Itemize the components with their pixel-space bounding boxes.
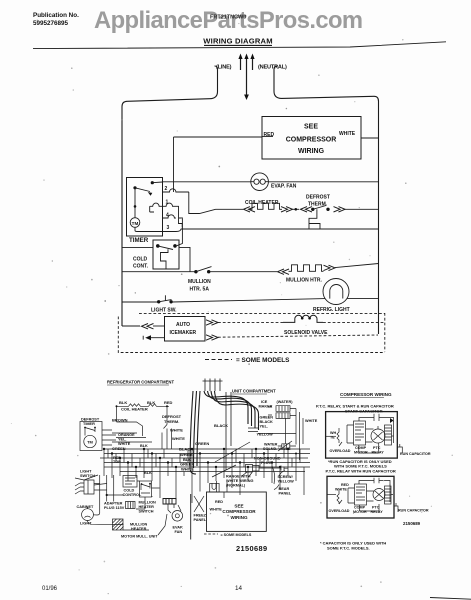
svg-text:WHITE: WHITE <box>339 131 356 137</box>
svg-text:WIRING: WIRING <box>298 148 325 155</box>
svg-text:THERM.: THERM. <box>164 419 179 424</box>
svg-text:YELLOW: YELLOW <box>278 480 295 484</box>
svg-text:MOTOR: MOTOR <box>354 451 368 455</box>
svg-text:TIMER: TIMER <box>129 237 149 244</box>
svg-text:SEE: SEE <box>304 124 318 131</box>
svg-text:WHITE: WHITE <box>335 488 347 492</box>
svg-text:MAKER: MAKER <box>259 405 273 409</box>
svg-text:Publication No.: Publication No. <box>33 12 79 19</box>
svg-text:FAN: FAN <box>175 530 183 534</box>
svg-text:BLK: BLK <box>119 400 127 405</box>
svg-text:WH: WH <box>330 431 336 435</box>
svg-text:RUN CAPACITOR: RUN CAPACITOR <box>398 509 429 513</box>
svg-text:(WATER): (WATER) <box>277 400 294 404</box>
svg-text:SOLENOID VALVE: SOLENOID VALVE <box>284 330 328 336</box>
svg-text:RANGE WITH: RANGE WITH <box>226 475 251 479</box>
svg-text:PTC: PTC <box>373 446 381 450</box>
svg-text:WHITE: WHITE <box>170 428 183 433</box>
svg-text:GREEN: GREEN <box>260 416 274 420</box>
svg-text:CABINET: CABINET <box>77 505 95 509</box>
svg-text:PANEL: PANEL <box>194 518 207 522</box>
svg-text:HTR. 5A: HTR. 5A <box>190 287 210 293</box>
svg-text:WHITE WIRING: WHITE WIRING <box>226 479 253 483</box>
svg-text:01/96: 01/96 <box>42 586 58 592</box>
svg-text:CONTROL: CONTROL <box>123 493 142 497</box>
svg-text:WHITE: WHITE <box>118 442 131 446</box>
svg-text:COIL HEATER: COIL HEATER <box>121 407 148 412</box>
svg-text:MULLION: MULLION <box>139 501 157 505</box>
svg-text:RED: RED <box>341 483 349 487</box>
svg-text:COMPRESSOR WIRING: COMPRESSOR WIRING <box>340 392 392 397</box>
svg-text:FRT21TNCW0: FRT21TNCW0 <box>210 15 246 21</box>
svg-text:UNIT COMPARTMENT: UNIT COMPARTMENT <box>232 389 276 394</box>
svg-text:COLD: COLD <box>133 257 148 263</box>
svg-text:DEFROST: DEFROST <box>81 418 100 422</box>
svg-text:COLD: COLD <box>124 489 135 493</box>
svg-text:MULLION HTR.: MULLION HTR. <box>286 278 322 284</box>
svg-text:SWITCH: SWITCH <box>139 510 154 514</box>
svg-text:HEATER: HEATER <box>139 505 155 509</box>
svg-text:REAR: REAR <box>279 487 290 491</box>
svg-text:= SOME MODELS: = SOME MODELS <box>236 357 290 364</box>
svg-text:3: 3 <box>167 225 170 231</box>
svg-text:EVAP.: EVAP. <box>173 526 184 530</box>
svg-text:REFRIG. LIGHT: REFRIG. LIGHT <box>313 307 350 313</box>
svg-text:WHITE: WHITE <box>172 436 185 441</box>
svg-text:ADAPTER: ADAPTER <box>104 502 123 506</box>
svg-text:YEL.: YEL. <box>260 425 268 429</box>
svg-text:COMP: COMP <box>355 446 367 450</box>
svg-text:SCREW/: SCREW/ <box>278 475 294 479</box>
svg-text:MULLION: MULLION <box>188 279 211 285</box>
svg-text:PTC: PTC <box>372 506 380 510</box>
svg-text:ICE: ICE <box>261 400 268 404</box>
svg-text:DEFROST: DEFROST <box>306 195 330 201</box>
svg-text:(NEUTRAL): (NEUTRAL) <box>258 65 287 71</box>
svg-text:REFRIGERATOR COMPARTMENT: REFRIGERATOR COMPARTMENT <box>107 380 174 385</box>
svg-text:COMPRESSOR: COMPRESSOR <box>286 137 337 144</box>
svg-text:PANEL: PANEL <box>279 492 292 496</box>
svg-text:PLUG 115V: PLUG 115V <box>104 506 125 510</box>
svg-text:(NORMAL): (NORMAL) <box>226 484 246 488</box>
svg-text:WHITE: WHITE <box>181 467 194 472</box>
svg-text:BLACK: BLACK <box>179 447 193 452</box>
svg-text:CONT.: CONT. <box>133 264 149 270</box>
svg-text:BLK: BLK <box>140 444 148 448</box>
svg-text:2: 2 <box>165 186 168 192</box>
svg-text:OVERLOAD: OVERLOAD <box>329 509 350 513</box>
svg-text:SOME P.T.C. MODELS.: SOME P.T.C. MODELS. <box>327 546 370 551</box>
svg-text:(LINE): (LINE) <box>216 65 232 71</box>
svg-text:ORANGE: ORANGE <box>118 433 135 437</box>
svg-text:LIGHT: LIGHT <box>80 522 92 526</box>
svg-text:P.T.C. RELAY WITH RUN CAPACITO: P.T.C. RELAY WITH RUN CAPACITOR <box>326 468 396 473</box>
svg-text:LIGHT: LIGHT <box>80 470 92 474</box>
svg-text:WIRING: WIRING <box>230 515 248 520</box>
svg-text:RED: RED <box>164 400 173 405</box>
svg-text:COMPRESSOR: COMPRESSOR <box>222 509 256 514</box>
svg-text:2150689: 2150689 <box>236 544 268 553</box>
svg-text:RELAY: RELAY <box>372 451 385 455</box>
svg-text:RED: RED <box>264 132 275 138</box>
svg-text:= SOME MODELS: = SOME MODELS <box>221 533 252 537</box>
svg-text:SWITCH: SWITCH <box>80 474 95 478</box>
svg-text:MULLION: MULLION <box>130 523 148 527</box>
svg-text:5995276895: 5995276895 <box>33 20 69 27</box>
svg-text:MOTOR: MOTOR <box>353 510 367 514</box>
svg-text:WATER: WATER <box>264 443 278 447</box>
svg-text:LIGHT SW.: LIGHT SW. <box>151 308 177 314</box>
svg-text:MOTOR MULL. UNIT: MOTOR MULL. UNIT <box>121 535 158 539</box>
svg-text:14: 14 <box>235 585 243 592</box>
svg-text:TM: TM <box>132 221 139 226</box>
svg-text:TIMER: TIMER <box>83 422 95 426</box>
svg-text:RED: RED <box>215 500 223 504</box>
svg-text:PLUG: PLUG <box>261 461 272 465</box>
svg-text:YEL.: YEL. <box>118 438 126 442</box>
svg-text:TM: TM <box>87 440 93 445</box>
svg-text:WHITE: WHITE <box>210 508 223 512</box>
svg-text:AUTO: AUTO <box>176 322 190 328</box>
svg-text:NON-GROUND: NON-GROUND <box>254 457 281 461</box>
svg-text:YELLOW: YELLOW <box>257 433 274 437</box>
svg-text:EVAP. FAN: EVAP. FAN <box>271 183 297 189</box>
svg-text:HEATER: HEATER <box>131 527 147 531</box>
svg-text:2150689: 2150689 <box>403 521 421 526</box>
svg-text:RELAY: RELAY <box>371 510 384 514</box>
svg-text:OVERLOAD: OVERLOAD <box>330 449 351 453</box>
svg-text:RUN CAPACITOR: RUN CAPACITOR <box>400 452 431 456</box>
svg-text:FREEZ: FREEZ <box>194 514 207 518</box>
svg-text:SEE: SEE <box>234 504 243 509</box>
svg-text:WHITE: WHITE <box>305 419 318 423</box>
svg-text:BLACK: BLACK <box>260 420 274 424</box>
svg-text:WIRING DIAGRAM: WIRING DIAGRAM <box>203 37 272 46</box>
svg-text:ICEMAKER: ICEMAKER <box>170 330 197 336</box>
